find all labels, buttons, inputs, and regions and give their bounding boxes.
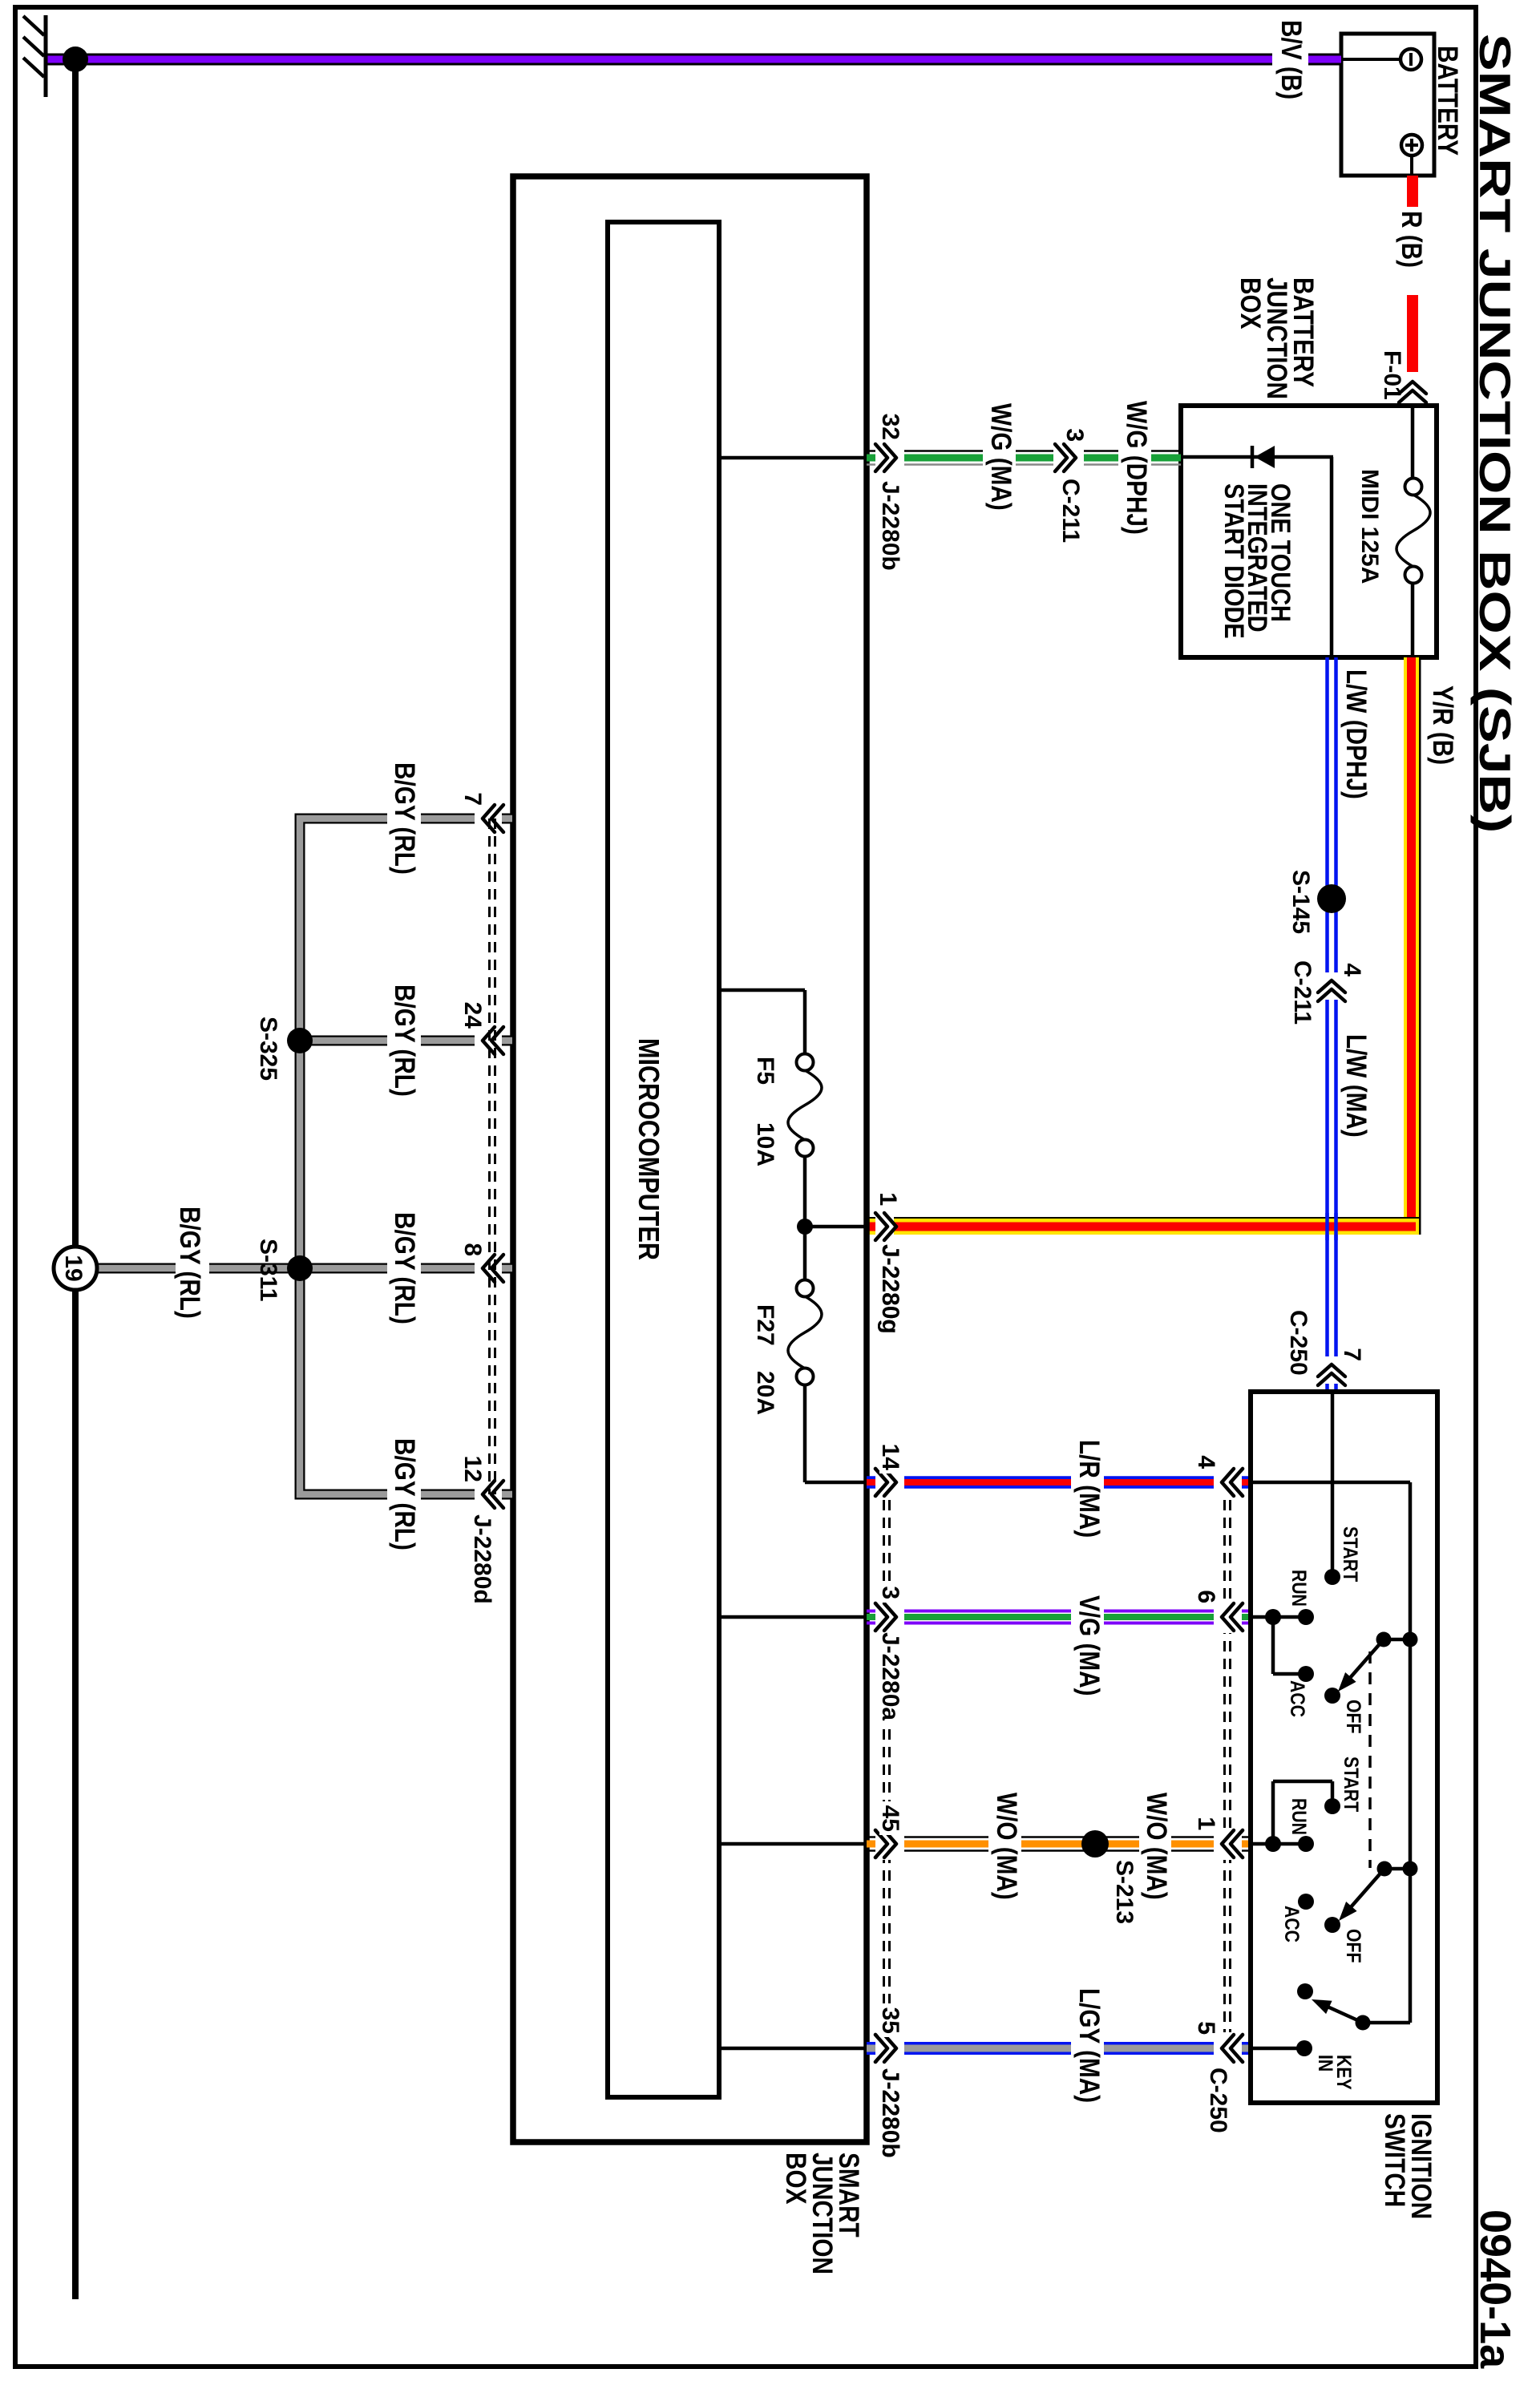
- fuse F-01 chevron: [1399, 382, 1426, 402]
- contact RUN 1: [1298, 1609, 1314, 1625]
- svg-text:20A: 20A: [752, 1371, 778, 1415]
- wire W/O (MA): lower: [904, 1837, 988, 1851]
- junction dot W/O: [1265, 1836, 1281, 1852]
- wire W/O stub at SJB: [867, 1837, 875, 1851]
- splice S-145: [1317, 884, 1346, 913]
- svg-text:J-2280g: J-2280g: [877, 1244, 903, 1334]
- redraw C-250 chevron 1: [1222, 1830, 1243, 1858]
- svg-text:3: 3: [1061, 428, 1088, 442]
- connector J-2280d pin 12 chevron: [483, 1481, 503, 1508]
- label B/GY (RL) pin 12: [389, 1438, 420, 1550]
- label C-250 (pin 5): [1205, 2068, 1231, 2133]
- redraw label 6 C250: [1193, 1590, 1219, 1603]
- redraw C-250 chevron 4: [1222, 1469, 1243, 1496]
- svg-text:J-2280a: J-2280a: [877, 1632, 903, 1720]
- svg-text:3: 3: [877, 1586, 903, 1599]
- label RUN 2: [1288, 1798, 1311, 1835]
- svg-text:J-2280b: J-2280b: [877, 481, 903, 571]
- label 32: [877, 414, 903, 440]
- wire V/G stub at SJB: [867, 1611, 875, 1623]
- label START 2: [1340, 1756, 1363, 1812]
- wire L/R (MA): upper: [1104, 1478, 1214, 1487]
- label 12: [459, 1456, 486, 1482]
- redraw chevrons over dashes 14: [875, 1469, 896, 1496]
- label 3 (J-2280a): [877, 1586, 903, 1599]
- internal wire F5 to junction: [803, 1156, 807, 1227]
- label 4 (C-250): [1193, 1455, 1219, 1469]
- svg-text:35: 35: [877, 2007, 903, 2034]
- wire R (B): seg2: [1407, 295, 1418, 372]
- label 1: [875, 1192, 901, 1206]
- internal wire pin 32: [719, 456, 867, 460]
- wire: battery negative stub: [1341, 58, 1401, 61]
- lever switch 2: [1339, 1869, 1384, 1921]
- svg-text:W/O (MA): W/O (MA): [991, 1793, 1022, 1900]
- label 7 (J-2280d): [459, 792, 486, 806]
- svg-text:START: START: [1340, 1526, 1362, 1582]
- pivot key-in lever: [1356, 2015, 1371, 2031]
- label F27 20A: [752, 1304, 778, 1415]
- svg-text:R (B): R (B): [1396, 211, 1427, 268]
- wire L/GY stub at ignition: [1241, 2043, 1250, 2053]
- battery junction box label: [1235, 277, 1319, 399]
- ground G1: [23, 15, 46, 97]
- smart junction box: [513, 176, 867, 2142]
- wire W/G (MA): below C-211: [1016, 451, 1053, 465]
- label ACC 1: [1287, 1680, 1309, 1717]
- svg-text:6: 6: [1193, 1590, 1219, 1603]
- label 14: [877, 1444, 903, 1471]
- redraw label J-2280b 35: [877, 2068, 903, 2158]
- wire L/GY (MA): upper: [1104, 2043, 1214, 2053]
- svg-text:L/GY (MA): L/GY (MA): [1073, 1988, 1105, 2103]
- svg-text:L/W (DPHJ): L/W (DPHJ): [1340, 669, 1372, 799]
- connector C-250 pin 6 chevron: [1222, 1603, 1243, 1631]
- wire B/GY (RL) trunk: [96, 819, 512, 1494]
- label 35: [877, 2007, 903, 2034]
- svg-text:J-2280b: J-2280b: [877, 2068, 903, 2158]
- wire: L/GY to KEY IN contact: [1252, 2047, 1304, 2051]
- redraw label 1 C250: [1193, 1817, 1219, 1830]
- label J-2280b: [877, 481, 903, 571]
- diode D1: [1252, 446, 1275, 468]
- battery label: [1432, 46, 1463, 156]
- wire L/W crossing over Y/R: [1328, 1213, 1336, 1240]
- svg-text:S-325: S-325: [255, 1017, 281, 1081]
- wire L/R (MA): lower: [904, 1478, 1071, 1487]
- svg-text:SWITCH: SWITCH: [1379, 2113, 1410, 2207]
- connector J-2280a/b dashed line: [877, 1466, 900, 2064]
- microcomputer box: [608, 222, 719, 2097]
- svg-text:L/W (MA): L/W (MA): [1340, 1034, 1372, 1138]
- redraw label J-2280g: [877, 1244, 903, 1334]
- label S-311: [255, 1239, 281, 1301]
- wire Y/R (B): vertical to J-2280g: [894, 1217, 1419, 1235]
- junction dot V/G: [1265, 1609, 1281, 1625]
- svg-text:7: 7: [459, 792, 486, 806]
- label OFF 1: [1343, 1700, 1365, 1733]
- contact OFF 2: [1324, 1917, 1340, 1933]
- svg-text:B/GY (RL): B/GY (RL): [389, 1438, 420, 1550]
- label F-01: [1379, 350, 1405, 400]
- label J-2280b (pin 35): [877, 2068, 903, 2158]
- svg-text:F5: F5: [752, 1057, 778, 1085]
- connector J-2280b pin 32 chevron: [875, 444, 896, 471]
- label C-211 (pin 3): [1057, 479, 1084, 543]
- wire L/R stub at ignition: [1241, 1478, 1250, 1487]
- svg-text:IN: IN: [1315, 2055, 1337, 2072]
- wire R (B): seg1: [1407, 176, 1418, 207]
- ignition switch box: [1251, 1392, 1437, 2103]
- redraw label 45: [877, 1801, 903, 1835]
- label W/O (MA) upper: [1141, 1793, 1172, 1900]
- svg-text:S-213: S-213: [1111, 1860, 1138, 1924]
- contact KEY IN: [1296, 2040, 1312, 2056]
- wire: L/W to START contact: [1331, 1394, 1335, 1577]
- svg-text:C-211: C-211: [1057, 479, 1084, 543]
- label S-325: [255, 1017, 281, 1081]
- label KEY IN: [1315, 2055, 1356, 2090]
- label ACC 2: [1281, 1906, 1304, 1942]
- key-in lever: [1312, 1999, 1363, 2023]
- wire V/G (MA): lower: [904, 1611, 1071, 1623]
- internal wire pin 45: [719, 1842, 867, 1846]
- contact START 1: [1324, 1569, 1340, 1585]
- label B/GY (RL) pin 8: [389, 1212, 420, 1324]
- label W/G (MA): [985, 403, 1017, 511]
- contact OFF 1: [1324, 1688, 1340, 1704]
- redraw chevrons over dashes 3: [875, 1603, 896, 1631]
- wire W/O (MA): middle: [1021, 1837, 1139, 1851]
- redraw label 3: [877, 1583, 903, 1603]
- wire V/G (MA): upper: [1104, 1611, 1214, 1623]
- label L/GY (MA): [1073, 1988, 1105, 2103]
- svg-text:19: 19: [60, 1255, 87, 1281]
- svg-text:B/GY (RL): B/GY (RL): [389, 762, 420, 875]
- wire W/G (DPHJ): to C-211: [1084, 451, 1118, 465]
- label C-250: [1285, 1310, 1312, 1376]
- svg-text:S-311: S-311: [255, 1239, 281, 1301]
- svg-text:W/G (DPHJ): W/G (DPHJ): [1121, 401, 1152, 535]
- internal wire to fuse F5: [719, 990, 805, 1054]
- redraw label 5 C250: [1193, 2021, 1219, 2035]
- fuse MIDI 125A: [1397, 406, 1430, 657]
- wire W/O (MA): upper: [1171, 1837, 1214, 1851]
- wire W/O stub at ignition: [1241, 1837, 1250, 1851]
- label W/G (DPHJ): [1121, 401, 1152, 535]
- label 1 (C-250): [1193, 1817, 1219, 1830]
- label B/GY (RL) pin 24: [389, 984, 420, 1097]
- wire W/G stub at SJB: [867, 451, 875, 465]
- svg-text:24: 24: [459, 1002, 486, 1029]
- label 5: [1193, 2021, 1219, 2035]
- svg-text:45: 45: [877, 1805, 903, 1832]
- connector C-211 pin 4 chevron: [1318, 980, 1345, 1001]
- label W/O (MA) lower: [991, 1793, 1022, 1900]
- label 7: [1339, 1348, 1365, 1361]
- svg-text:12: 12: [459, 1456, 486, 1482]
- branch to ACC 1: [1273, 1617, 1306, 1674]
- svg-text:B/GY (RL): B/GY (RL): [389, 984, 420, 1097]
- internal wire junction to pin 1: [805, 1225, 867, 1229]
- connector J-2280d pin 8 chevron: [483, 1255, 503, 1282]
- label B/GY (RL) ground lead: [174, 1207, 205, 1319]
- redraw label 35: [877, 2003, 903, 2037]
- wire L/GY (MA): lower: [904, 2043, 1071, 2053]
- connector C-250 pin 1 chevron: [1222, 1830, 1243, 1858]
- fuse F27 20A: [788, 1280, 822, 1385]
- svg-text:B/GY (RL): B/GY (RL): [389, 1212, 420, 1324]
- connector J-2280d pin 24 chevron: [483, 1027, 503, 1054]
- label 45: [877, 1805, 903, 1832]
- wire Y/R stub at SJB: [867, 1217, 875, 1235]
- junction dot at ground: [63, 46, 88, 72]
- internal junction dot: [797, 1219, 813, 1235]
- svg-text:F-01: F-01: [1379, 350, 1405, 400]
- wire: feed to key-in lever: [1363, 2021, 1410, 2025]
- connector J-2280d pin 7 chevron: [483, 805, 503, 832]
- one touch integrated start diode label: [1219, 483, 1296, 639]
- redraw C-250 chevron 6: [1222, 1603, 1243, 1631]
- label V/G (MA): [1073, 1595, 1105, 1696]
- ground bus wire: [72, 59, 79, 2299]
- svg-text:4: 4: [1193, 1455, 1219, 1469]
- internal wire junction to F27: [803, 1227, 807, 1280]
- internal wire F27 to pin 14: [805, 1385, 867, 1482]
- contact key-in idle: [1297, 1983, 1313, 1999]
- svg-text:1: 1: [1193, 1817, 1219, 1830]
- wire L/R stub at SJB: [867, 1478, 875, 1487]
- diagram id 0940-1a: [1471, 2209, 1519, 2369]
- wire R (B): seg3: [1407, 403, 1418, 406]
- svg-text:C-250: C-250: [1285, 1310, 1312, 1376]
- svg-text:7: 7: [1339, 1348, 1365, 1361]
- label MIDI 125A: [1356, 469, 1383, 584]
- wire B/V (B): segment 1: [1308, 54, 1341, 66]
- svg-text:B/V (B): B/V (B): [1275, 20, 1307, 99]
- svg-text:RUN: RUN: [1288, 1798, 1311, 1835]
- splice S-311: [287, 1255, 313, 1281]
- splice S-325: [287, 1028, 313, 1053]
- label R (B): [1396, 211, 1427, 268]
- connector C-250 pin 4 chevron: [1222, 1469, 1243, 1496]
- label RUN 1: [1288, 1570, 1311, 1607]
- redraw label 14: [877, 1440, 903, 1473]
- contact ACC 1: [1298, 1666, 1314, 1682]
- hook to START 2: [1273, 1781, 1332, 1844]
- fuse F5 10A: [788, 1054, 822, 1157]
- wire gaps: [176, 759, 502, 1554]
- contact RUN 2: [1298, 1836, 1314, 1852]
- wire L/W (MA): to ignition switch: [1328, 1384, 1336, 1392]
- smart junction box label: [780, 2153, 864, 2274]
- title: SMART JUNCTION BOX (SJB): [1470, 34, 1519, 833]
- battery positive terminal: [1401, 135, 1422, 156]
- svg-text:RUN: RUN: [1288, 1570, 1311, 1607]
- svg-text:4: 4: [1339, 963, 1365, 976]
- battery junction box: [1181, 406, 1437, 657]
- redraw label 1: [875, 1192, 901, 1206]
- svg-text:32: 32: [877, 414, 903, 440]
- redraw chevrons over dashes 35: [875, 2035, 896, 2062]
- svg-text:B/GY (RL): B/GY (RL): [174, 1207, 205, 1319]
- label Y/R (B): [1427, 685, 1458, 765]
- wire Y/R (B): horizontal: [1404, 657, 1421, 1235]
- redraw label J-2280a: [877, 1632, 903, 1720]
- label L/R (MA): [1073, 1440, 1105, 1538]
- microcomputer label: [632, 1038, 664, 1260]
- redraw label 4 C250: [1193, 1455, 1219, 1469]
- label 24: [459, 1002, 486, 1029]
- splice S-213: [1081, 1830, 1109, 1858]
- connector J-2280g pin 1 chevron: [875, 1213, 896, 1240]
- label J-2280g: [877, 1244, 903, 1334]
- label F5 10A: [752, 1057, 778, 1166]
- lever switch 1: [1338, 1639, 1384, 1692]
- svg-text:START DIODE: START DIODE: [1219, 483, 1250, 639]
- svg-text:C-250: C-250: [1205, 2068, 1231, 2133]
- wire W/G (MA): to J-2280b: [904, 451, 983, 465]
- connector C-250 dashed line: [1218, 1466, 1242, 2064]
- svg-text:C-211: C-211: [1289, 960, 1316, 1025]
- wire: V/G to RUN 1: [1252, 1615, 1306, 1619]
- wire L/W (MA): C-211 to C-250: [1328, 1000, 1336, 1356]
- wire: battery feed line: [1252, 1482, 1410, 2023]
- wire L/W (DPHJ): BJB to C-211: [1328, 657, 1336, 972]
- battery box: [1341, 34, 1434, 176]
- wire W/G (DPHJ): BJB down: [1151, 451, 1181, 465]
- contact START 2: [1324, 1798, 1340, 1814]
- diode branch line: [1181, 455, 1333, 459]
- svg-text:MIDI 125A: MIDI 125A: [1356, 469, 1383, 584]
- redraw label 3 green: [1061, 428, 1088, 442]
- redraw C-250 chevron 5: [1222, 2035, 1243, 2062]
- wire B/V (B): segment 2: [46, 54, 1272, 66]
- svg-text:14: 14: [877, 1444, 903, 1471]
- redraw chevrons over dashes 45: [875, 1830, 896, 1858]
- svg-text:S-145: S-145: [1287, 870, 1314, 934]
- pivot switch 2: [1377, 1862, 1418, 1877]
- pivot switch 1: [1376, 1632, 1418, 1647]
- label START 1: [1340, 1526, 1362, 1582]
- wire L/GY stub at SJB: [867, 2043, 875, 2053]
- label 8: [459, 1243, 486, 1256]
- label J-2280d: [469, 1514, 495, 1604]
- label 4: [1339, 963, 1365, 976]
- connector J-2280b pin 35 chevron: [875, 2035, 896, 2062]
- label J-2280a: [877, 1632, 903, 1720]
- wire inside BJB (L/W feed): [1330, 457, 1334, 657]
- svg-text:10A: 10A: [752, 1122, 778, 1166]
- internal wire pin 3: [719, 1615, 867, 1619]
- wire: battery positive stub: [1410, 156, 1413, 176]
- connector J-2280a pin 14 chevron: [875, 1469, 896, 1496]
- wire V/G stub at ignition: [1241, 1611, 1250, 1623]
- svg-text:ACC: ACC: [1287, 1680, 1309, 1717]
- ground reference circle 19: [54, 1247, 97, 1290]
- svg-text:MICROCOMPUTER: MICROCOMPUTER: [632, 1038, 664, 1260]
- connector J-2280a pin 3 chevron: [875, 1603, 896, 1631]
- battery negative terminal: [1401, 49, 1421, 70]
- svg-text:J-2280d: J-2280d: [469, 1514, 495, 1604]
- label 6: [1193, 1590, 1219, 1603]
- connector C-211 pin 3 chevron: [1055, 444, 1076, 471]
- label OFF 2: [1343, 1929, 1365, 1963]
- label C-211: [1289, 960, 1316, 1025]
- svg-text:ACC: ACC: [1281, 1906, 1304, 1942]
- mechanical link dashed: [1368, 1651, 1372, 1868]
- connector J-2280b pin 45 chevron: [875, 1830, 896, 1858]
- svg-text:START: START: [1340, 1756, 1363, 1812]
- svg-text:OFF: OFF: [1343, 1929, 1365, 1963]
- svg-text:W/O (MA): W/O (MA): [1141, 1793, 1172, 1900]
- svg-text:1: 1: [875, 1192, 901, 1206]
- svg-text:F27: F27: [752, 1304, 778, 1346]
- label 3: [1061, 428, 1088, 442]
- wire: W/O to RUN 2: [1252, 1842, 1306, 1846]
- svg-text:Y/R (B): Y/R (B): [1427, 685, 1458, 765]
- svg-text:BOX: BOX: [780, 2153, 811, 2205]
- connector J-2280d dashed line: [490, 819, 495, 1494]
- svg-text:OFF: OFF: [1343, 1700, 1365, 1733]
- label B/GY (RL) pin 7: [389, 762, 420, 875]
- internal wire pin 35: [719, 2047, 867, 2051]
- label S-213: [1111, 1860, 1138, 1924]
- contact ACC 2: [1298, 1894, 1314, 1910]
- connector C-250 pin 7 chevron: [1318, 1364, 1345, 1385]
- svg-text:V/G (MA): V/G (MA): [1073, 1595, 1105, 1696]
- ignition switch label: [1379, 2113, 1437, 2219]
- label L/W (MA): [1340, 1034, 1372, 1138]
- svg-text:5: 5: [1193, 2021, 1219, 2035]
- connector C-250 pin 5 chevron: [1222, 2035, 1243, 2062]
- svg-text:L/R (MA): L/R (MA): [1073, 1440, 1105, 1538]
- svg-text:8: 8: [459, 1243, 486, 1256]
- label B/V (B): [1275, 20, 1307, 99]
- svg-text:BOX: BOX: [1235, 277, 1266, 329]
- svg-text:W/G (MA): W/G (MA): [985, 403, 1017, 511]
- label L/W (DPHJ): [1340, 669, 1372, 799]
- label S-145: [1287, 870, 1314, 934]
- svg-text:BATTERY: BATTERY: [1432, 46, 1463, 156]
